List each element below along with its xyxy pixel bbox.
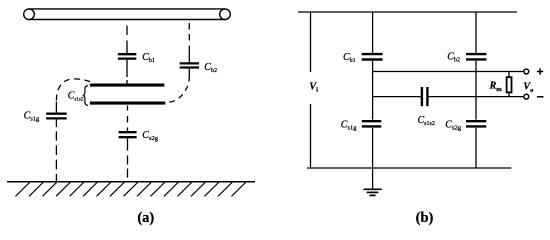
ground symbol: [364, 189, 382, 195]
wire: dashed arc from Cb2 to sensor plate S2: [166, 69, 189, 103]
wire: dashed from Cs2g to ground: [127, 138, 129, 177]
wire: right branch upper: [475, 12, 477, 53]
wire: node 2 horizontal left part: [373, 96, 421, 98]
svg-text:Cs1s2: Cs1s2: [418, 115, 435, 127]
wire: dashed drop from busbar to Cb1: [126, 26, 128, 54]
svg-text:Cb1: Cb1: [343, 52, 356, 64]
capacitor Cb2 (b): [466, 54, 486, 59]
capacitor Cs1s2 (b): [422, 87, 428, 106]
wire: dashed arc from sensor plate S1 to Cs1g: [56, 79, 91, 101]
wire: dashed from sensor plate S2 to Cs2g: [127, 106, 129, 132]
terminal + (output): [524, 69, 529, 74]
wire: left branch (Vi): [310, 12, 312, 168]
svg-text:Vo: Vo: [523, 82, 533, 94]
wire: middle branch upper: [372, 12, 374, 53]
svg-text:Rm: Rm: [489, 81, 503, 93]
svg-text:Cb2: Cb2: [204, 62, 217, 74]
wire: middle branch mid: [372, 61, 374, 120]
wire: dashed from Cs1g to ground: [55, 120, 57, 182]
wire: Cb1 to top sensor plate: [126, 60, 128, 84]
capacitor Cb1: [118, 54, 137, 58]
wire: node 1 horizontal (to + terminal): [373, 71, 524, 73]
capacitor Cs1g (b): [362, 121, 382, 126]
svg-text:(a): (a): [137, 210, 154, 226]
busbar cylinder: [24, 9, 231, 20]
wire: dashed drop from busbar to Cb2: [188, 23, 190, 62]
svg-text:Vi: Vi: [309, 81, 318, 93]
wire: bottom bus: [307, 167, 511, 169]
capacitor Cb1 (b): [362, 54, 383, 59]
svg-text:Cb2: Cb2: [447, 52, 460, 64]
sensor plate S1 (top): [90, 84, 164, 87]
terminal - (output): [524, 94, 529, 99]
capacitor Cb2: [180, 63, 199, 67]
wire: lead into Cs1g: [55, 102, 57, 113]
label +: [537, 68, 543, 74]
sensor plate S2 (bottom): [90, 102, 165, 105]
label -: [537, 96, 544, 98]
svg-text:Cb1: Cb1: [142, 52, 155, 64]
svg-text:(b): (b): [416, 210, 434, 226]
svg-text:Cs1s2: Cs1s2: [68, 91, 84, 103]
capacitor Cs1g: [46, 114, 66, 119]
svg-text:Cs2g: Cs2g: [445, 120, 461, 132]
resistor Rm: [508, 72, 510, 97]
svg-text:Cs2g: Cs2g: [142, 130, 158, 142]
capacitor Cs2g (b): [466, 121, 486, 126]
svg-text:Cs1g: Cs1g: [341, 120, 357, 132]
wire: middle branch lower to ground: [372, 128, 374, 189]
brace for Cs1s2: [83, 86, 88, 106]
capacitor Cs2g: [119, 132, 137, 137]
svg-text:Cs1g: Cs1g: [24, 111, 40, 123]
wire: right branch mid: [475, 61, 477, 120]
wire: right branch lower: [475, 128, 477, 168]
ground plane line: [7, 181, 255, 183]
ground hatching: [16, 182, 247, 196]
wire: node 2 horizontal right part (to - terminal): [429, 96, 524, 98]
wire: top bus: [298, 11, 517, 13]
